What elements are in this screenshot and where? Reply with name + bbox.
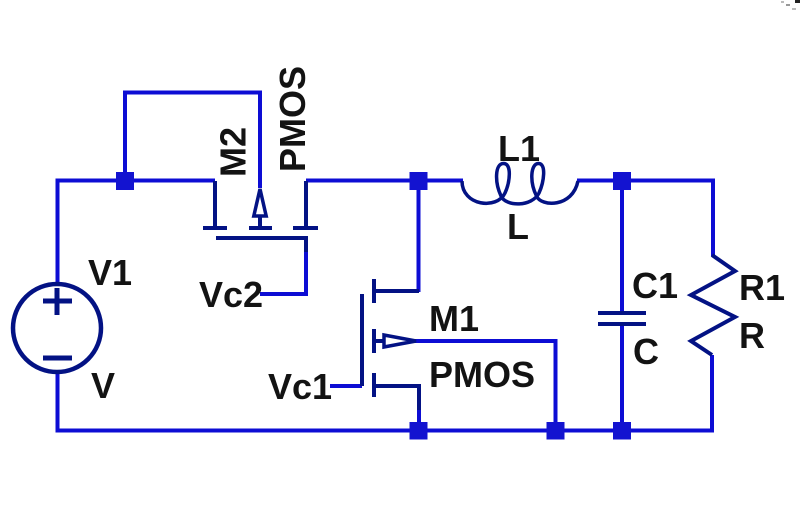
svg-text:M1: M1 [429, 298, 479, 339]
svg-text:C1: C1 [632, 265, 678, 306]
svg-text:L1: L1 [498, 128, 540, 169]
svg-text:PMOS: PMOS [272, 66, 313, 172]
svg-text:R: R [739, 315, 765, 356]
svg-text:Vc1: Vc1 [268, 366, 332, 407]
svg-text:C: C [633, 331, 659, 372]
svg-text:V1: V1 [88, 252, 132, 293]
svg-text:Vc2: Vc2 [199, 274, 263, 315]
svg-text:L: L [507, 206, 529, 247]
svg-text:V: V [91, 365, 115, 406]
svg-text:PMOS: PMOS [429, 354, 535, 395]
svg-text:M2: M2 [213, 127, 254, 177]
svg-text:R1: R1 [739, 267, 785, 308]
